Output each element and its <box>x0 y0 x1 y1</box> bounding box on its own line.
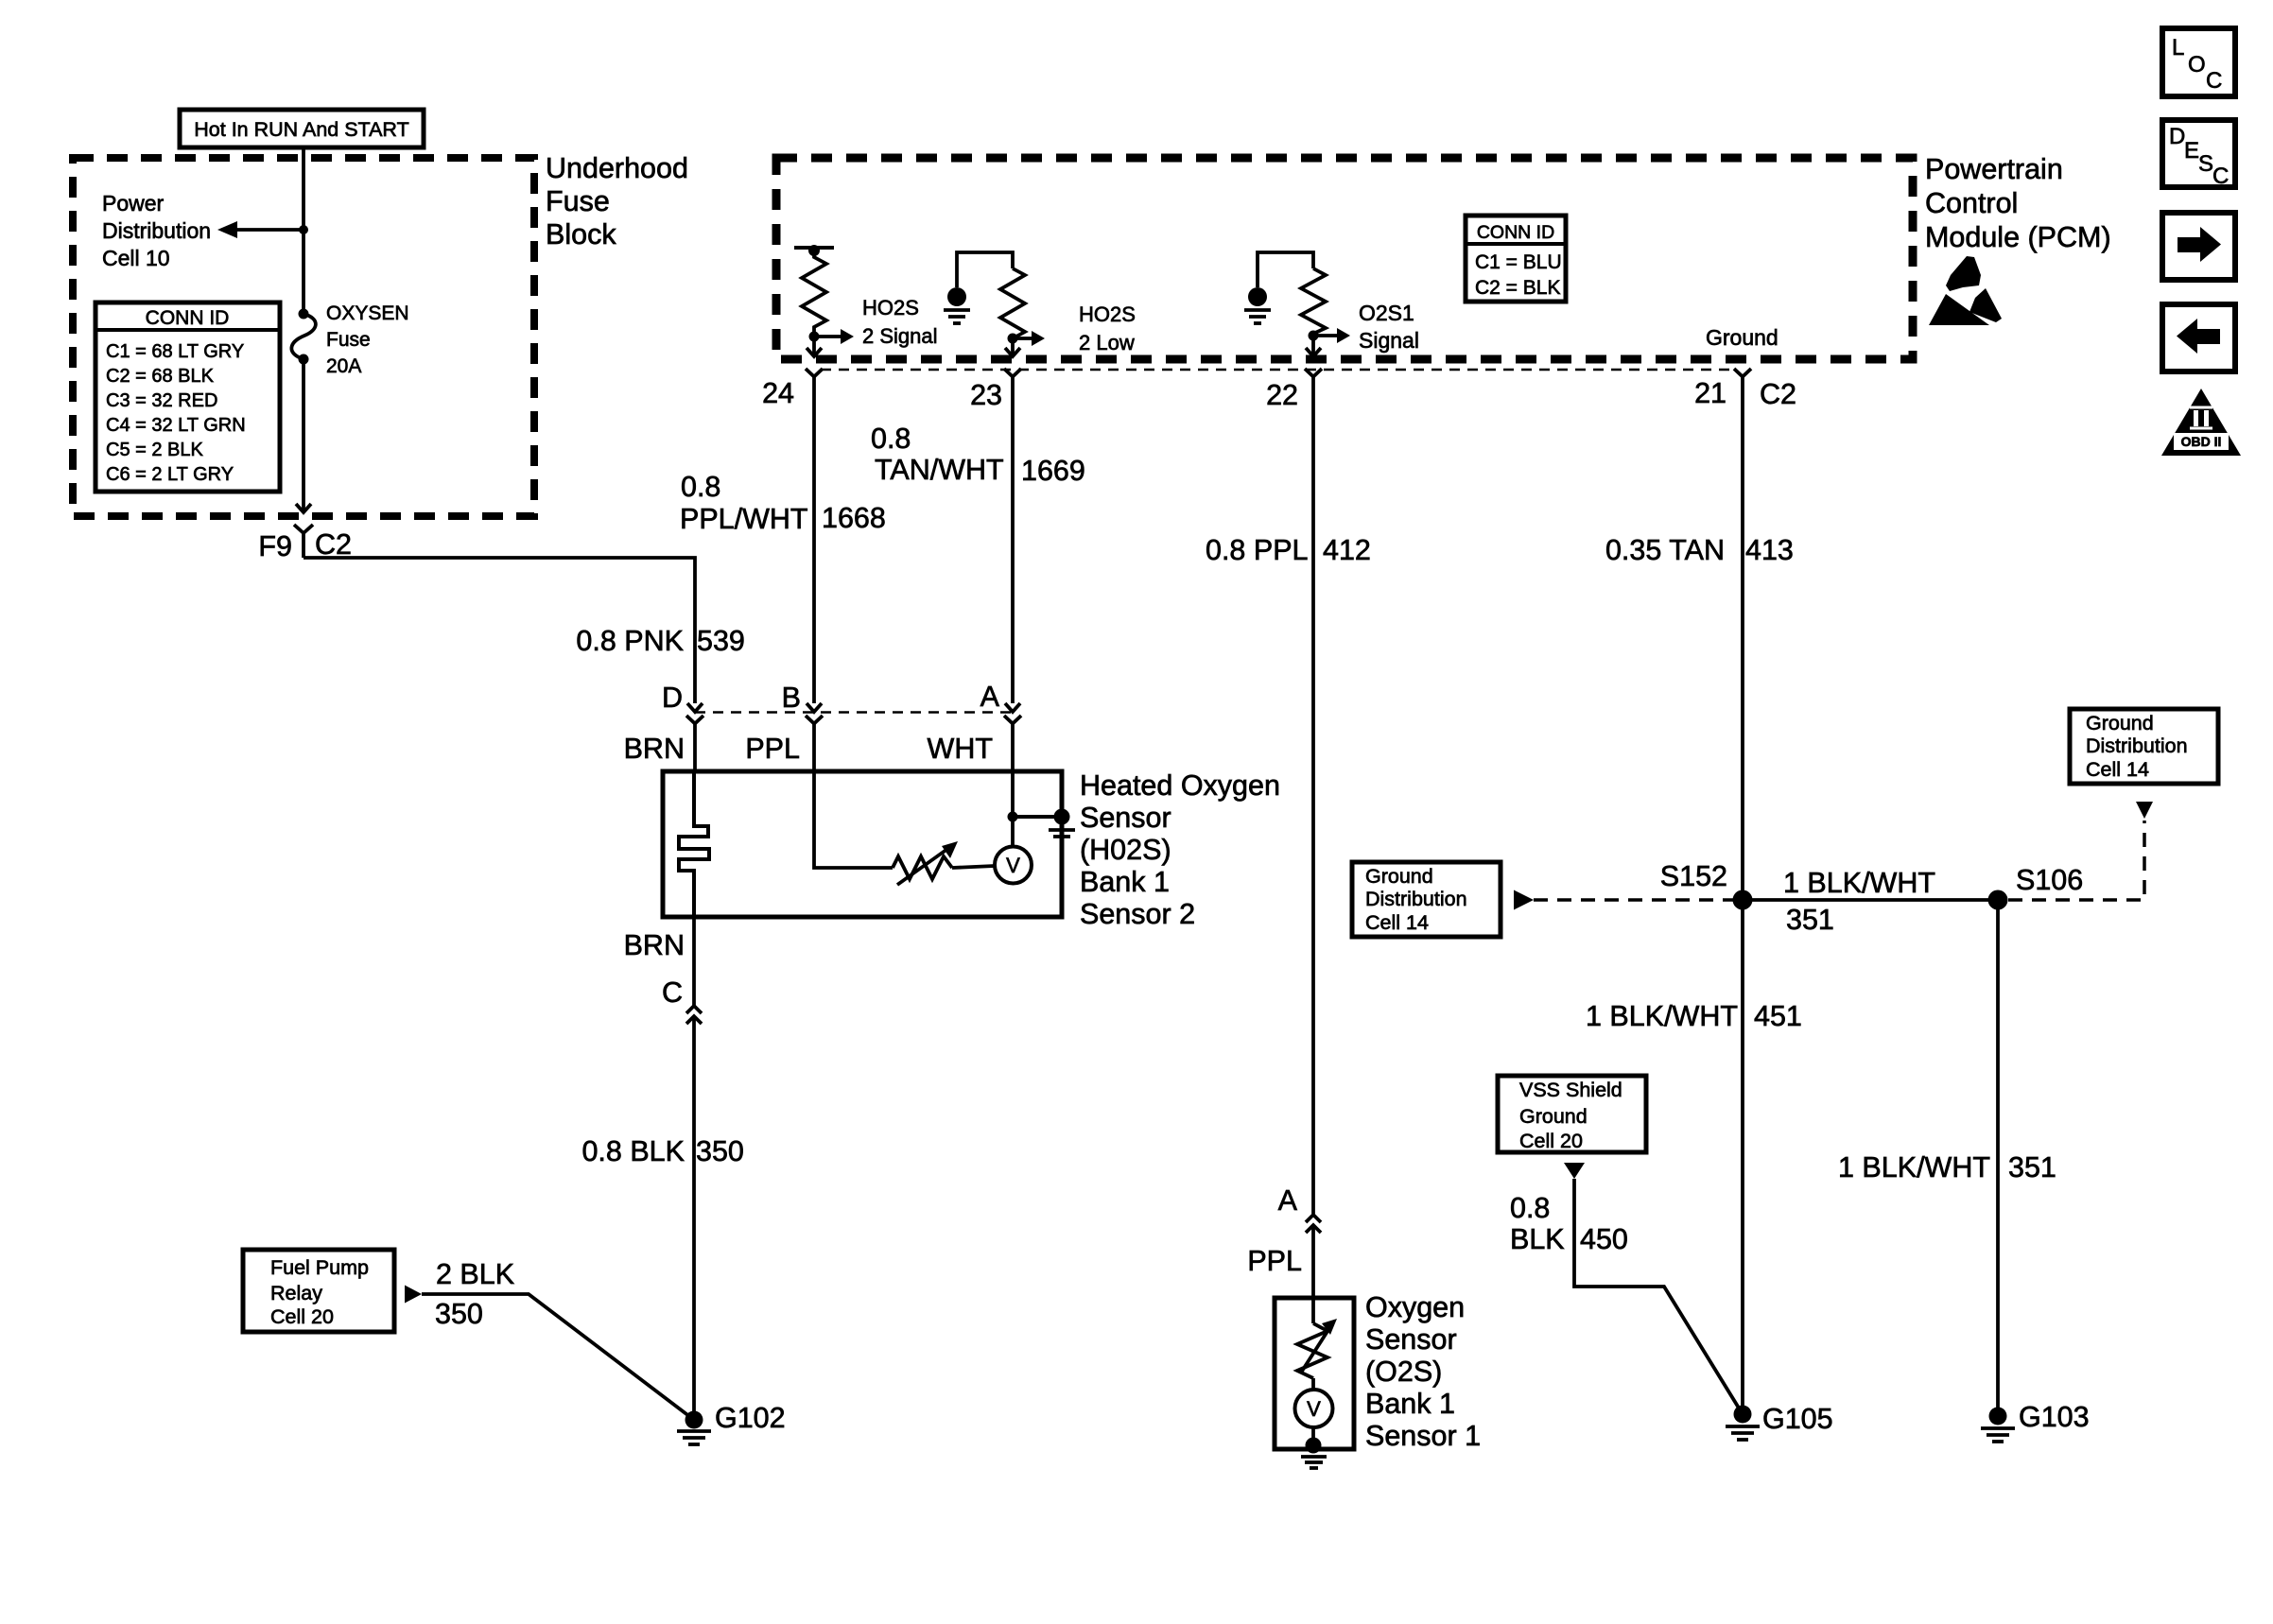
svg-text:C2 = BLK: C2 = BLK <box>1475 277 1560 299</box>
powertrain control module label <box>1925 153 2111 253</box>
resistor (pin 23 pull-down) <box>1000 268 1025 338</box>
Ground label (pin 21) <box>1706 325 1778 350</box>
wire label 0.8 PPL/WHT 1668 <box>680 471 886 535</box>
svg-text:Cell 10: Cell 10 <box>102 246 170 270</box>
svg-text:O2S1: O2S1 <box>1359 301 1414 325</box>
underhood fuse block label <box>546 152 688 251</box>
svg-text:D: D <box>2169 124 2185 149</box>
svg-text:B: B <box>782 682 801 714</box>
svg-text:Distribution: Distribution <box>102 218 211 243</box>
node junction to power distribution <box>299 225 308 234</box>
splice S152 <box>1660 860 1753 910</box>
ground G102 <box>677 1402 786 1444</box>
svg-text:Bank 1: Bank 1 <box>1365 1388 1455 1420</box>
pin 22 connector Y <box>1266 369 1322 411</box>
wire pin 24 exits PCM <box>807 337 822 356</box>
svg-text:S: S <box>2198 151 2213 177</box>
wire label 0.8 BLK 350 <box>581 1135 743 1167</box>
svg-text:413: 413 <box>1745 534 1794 566</box>
power distribution cell 10 label <box>102 191 211 270</box>
svg-text:PPL: PPL <box>745 733 800 765</box>
connector D <box>662 682 703 724</box>
svg-text:539: 539 <box>697 625 745 657</box>
resistor (pin 24 pull-up) <box>802 251 826 337</box>
svg-text:1 BLK/WHT: 1 BLK/WHT <box>1838 1151 1990 1183</box>
wire element to V circle <box>1311 1378 1315 1390</box>
wire pin 24 down (PPL/WHT 1668) <box>812 377 816 704</box>
svg-text:(H02S): (H02S) <box>1080 834 1171 866</box>
svg-text:Cell 14: Cell 14 <box>1365 911 1429 934</box>
connector A <box>980 681 1021 724</box>
svg-text:A: A <box>1278 1184 1298 1217</box>
svg-text:0.8 PPL: 0.8 PPL <box>1206 534 1309 566</box>
connector B <box>782 682 823 724</box>
svg-text:Cell 20: Cell 20 <box>270 1305 334 1328</box>
wire pin 21 down (TAN 413) <box>1741 377 1744 901</box>
svg-text:1668: 1668 <box>822 502 886 534</box>
svg-text:D: D <box>662 682 683 714</box>
svg-text:V: V <box>1006 854 1020 877</box>
pin 24 connector Y <box>762 369 823 409</box>
svg-text:(O2S): (O2S) <box>1365 1356 1442 1388</box>
svg-text:Block: Block <box>546 218 616 251</box>
wire D to HO2S box (BRN) <box>624 724 695 772</box>
O2S sense element (zigzag with arrow) <box>1297 1319 1337 1378</box>
svg-text:C1 = 68 LT GRY: C1 = 68 LT GRY <box>106 341 244 362</box>
svg-text:0.8 BLK: 0.8 BLK <box>581 1135 685 1167</box>
svg-text:0.8: 0.8 <box>871 423 911 455</box>
case ground (HO2S shell) <box>1049 809 1075 838</box>
svg-text:PPL: PPL <box>1247 1245 1302 1277</box>
svg-text:Sensor: Sensor <box>1080 802 1171 834</box>
junction node on WHT <box>1008 812 1018 822</box>
wire pin 23 down (TAN/WHT 1669) <box>1011 377 1015 704</box>
svg-text:S106: S106 <box>2016 864 2083 896</box>
svg-text:1 BLK/WHT: 1 BLK/WHT <box>1586 1000 1738 1032</box>
resistor (pin 22 pull-down) <box>1301 268 1326 334</box>
powertrain control module dashed box <box>776 158 1913 359</box>
heater element (inside HO2S) <box>679 771 709 917</box>
svg-text:350: 350 <box>696 1135 744 1167</box>
svg-text:Sensor: Sensor <box>1365 1323 1457 1356</box>
wire label 0.8 TAN/WHT 1669 <box>871 423 1085 487</box>
svg-text:WHT: WHT <box>928 733 993 765</box>
svg-text:Ground: Ground <box>1519 1105 1588 1128</box>
svg-text:Sensor 1: Sensor 1 <box>1365 1420 1481 1452</box>
ground distribution cell 14 box (left) <box>1352 862 1501 937</box>
svg-text:1 BLK/WHT: 1 BLK/WHT <box>1783 867 1935 899</box>
svg-text:20A: 20A <box>326 355 361 377</box>
svg-text:OXYSEN: OXYSEN <box>326 302 409 324</box>
svg-text:CONN ID: CONN ID <box>1477 222 1554 243</box>
icon DESC <box>2162 120 2235 189</box>
svg-text:351: 351 <box>2008 1151 2056 1183</box>
node HO2S 2 Low with arrow <box>1008 302 1136 354</box>
svg-text:Power: Power <box>102 191 165 216</box>
wire S152 to S106 (1 BLK/WHT 351) <box>1743 867 1998 936</box>
svg-text:351: 351 <box>1786 904 1834 936</box>
svg-text:CONN ID: CONN ID <box>146 307 230 329</box>
heated oxygen sensor label <box>1080 769 1280 930</box>
svg-text:Oxygen: Oxygen <box>1365 1291 1465 1323</box>
wire B to HO2S box (PPL) <box>745 724 814 772</box>
wire ground to resistor pin 22 <box>1258 252 1313 287</box>
svg-text:HO2S: HO2S <box>1079 302 1136 326</box>
svg-text:22: 22 <box>1266 379 1298 411</box>
svg-text:2 BLK: 2 BLK <box>436 1258 514 1290</box>
OXYSEN fuse label <box>326 302 409 377</box>
svg-text:Ground: Ground <box>2086 712 2154 734</box>
hot in run and start label box <box>180 110 424 147</box>
wire fuel pump relay to G102 with arrow <box>405 1286 694 1421</box>
svg-text:450: 450 <box>1580 1223 1628 1255</box>
wire BRN exits HO2S box down <box>624 917 694 1006</box>
ground distribution cell 14 box (right) <box>2070 709 2218 784</box>
svg-text:451: 451 <box>1754 1000 1802 1032</box>
svg-text:BRN: BRN <box>624 733 685 765</box>
wire junction to case ground <box>1013 815 1062 819</box>
svg-text:C2: C2 <box>1760 378 1796 410</box>
svg-text:21: 21 <box>1694 377 1726 409</box>
svg-text:O: O <box>2188 52 2206 78</box>
ground G103 <box>1981 1401 2090 1442</box>
VSS shield ground cell 20 box <box>1498 1076 1646 1152</box>
wire C down to G102 (BLK 350) <box>692 1016 696 1420</box>
svg-text:C: C <box>662 976 683 1009</box>
svg-text:C: C <box>2212 164 2229 189</box>
svg-text:C2: C2 <box>315 528 352 561</box>
wire VSS box down to G105 (BLK 450) <box>1564 1163 1743 1414</box>
svg-text:C5 = 2 BLK: C5 = 2 BLK <box>106 440 204 460</box>
svg-text:Sensor 2: Sensor 2 <box>1080 898 1195 930</box>
svg-text:Bank 1: Bank 1 <box>1080 866 1170 898</box>
voltage source V (O2S) <box>1295 1390 1333 1427</box>
svg-text:1669: 1669 <box>1021 455 1085 487</box>
wire pin 22 down (PPL 412) <box>1311 377 1315 1215</box>
svg-text:L: L <box>2172 35 2184 60</box>
svg-text:G105: G105 <box>1762 1403 1833 1435</box>
svg-text:Underhood: Underhood <box>546 152 688 184</box>
svg-text:Module (PCM): Module (PCM) <box>1925 221 2111 253</box>
O2S case ground <box>1301 1438 1327 1469</box>
node O2S1 Signal with arrow <box>1309 301 1419 353</box>
svg-text:Heated Oxygen: Heated Oxygen <box>1080 769 1280 802</box>
svg-text:Distribution: Distribution <box>1365 888 1467 910</box>
svg-text:0.35 TAN: 0.35 TAN <box>1605 534 1725 566</box>
svg-text:HO2S: HO2S <box>862 296 919 320</box>
wire V to case ground node <box>1311 1427 1315 1445</box>
wire A to HO2S box (WHT) <box>928 724 1013 772</box>
connector row D B A (thin dashed) <box>695 711 1013 714</box>
variable resistor (HO2S sense element) <box>893 841 958 885</box>
icon forward arrow <box>2162 213 2235 280</box>
connector F9/C2 (Y symbol) <box>258 525 352 562</box>
svg-text:Powertrain: Powertrain <box>1925 153 2063 185</box>
PCM internal rail for pin 24 resistor <box>794 245 834 256</box>
pin 21 connector Y with C2 label <box>1694 369 1796 410</box>
svg-text:C2 = 68 BLK: C2 = 68 BLK <box>106 366 215 387</box>
dashed wire S106 to ground distribution (right) <box>2008 802 2153 900</box>
wire from Hot In RUN down to fuse <box>302 147 305 314</box>
underhood fuse block dashed box <box>73 158 534 516</box>
svg-text:Ground: Ground <box>1706 325 1778 350</box>
svg-text:Fuse: Fuse <box>546 185 610 217</box>
wire S152 down to G105 (451) <box>1586 900 1802 1414</box>
svg-text:V: V <box>1307 1397 1321 1421</box>
svg-text:Ground: Ground <box>1365 865 1433 888</box>
PCM CONN ID table <box>1466 216 1566 302</box>
svg-text:BLK: BLK <box>1510 1223 1565 1255</box>
svg-text:Signal: Signal <box>1359 328 1419 353</box>
ground G105 <box>1726 1403 1833 1440</box>
wire PPL into O2S box <box>1311 1225 1315 1323</box>
PCM connector C2 line (thin dashed) <box>821 369 1736 371</box>
svg-text:OBD II: OBD II <box>2181 434 2222 449</box>
wire S106 down to G103 (351) <box>1838 900 2056 1416</box>
wire PPL into box to variable resistor <box>814 771 893 868</box>
svg-text:Control: Control <box>1925 187 2018 219</box>
wire F9 to PNK drop (horizontal) <box>304 558 695 703</box>
wire pin 22 exits PCM <box>1306 336 1321 356</box>
node HO2S 2 Signal with arrow <box>809 296 938 348</box>
splice S106 <box>1988 864 2084 910</box>
heated oxygen sensor box <box>663 771 1062 917</box>
svg-text:C6 = 2 LT GRY: C6 = 2 LT GRY <box>106 464 234 485</box>
svg-text:2 Signal: 2 Signal <box>862 324 938 348</box>
svg-text:0.8: 0.8 <box>681 471 720 503</box>
svg-text:E: E <box>2184 138 2199 164</box>
svg-text:A: A <box>980 681 1000 713</box>
svg-text:0.8 PNK: 0.8 PNK <box>576 625 684 657</box>
svg-text:PPL/WHT: PPL/WHT <box>680 503 808 535</box>
svg-text:TAN/WHT: TAN/WHT <box>875 454 1004 486</box>
svg-text:Fuel Pump: Fuel Pump <box>270 1256 369 1279</box>
svg-text:C4 = 32 LT GRN: C4 = 32 LT GRN <box>106 415 246 436</box>
pin 23 connector Y <box>970 369 1021 411</box>
svg-text:G103: G103 <box>2019 1401 2090 1433</box>
svg-text:350: 350 <box>435 1298 483 1330</box>
dashed wire GD box to S152 with arrow <box>1514 890 1733 910</box>
svg-text:C: C <box>2206 68 2222 94</box>
wire pin 23 exits PCM <box>1005 338 1020 356</box>
wire ground to resistor pin 23 <box>957 252 1013 287</box>
svg-text:VSS Shield: VSS Shield <box>1519 1079 1622 1101</box>
wire label 0.35 TAN 413 <box>1605 534 1794 566</box>
svg-text:Hot In RUN And START: Hot In RUN And START <box>194 118 408 141</box>
voltage source V (HO2S) <box>995 847 1032 884</box>
wire WHT into box to junction <box>1011 771 1015 846</box>
fuse OXYSEN 20A <box>291 309 316 365</box>
oxygen sensor O2S box <box>1275 1298 1354 1449</box>
svg-text:G102: G102 <box>715 1402 786 1434</box>
svg-text:Distribution: Distribution <box>2086 734 2188 757</box>
icon back arrow <box>2162 304 2235 371</box>
svg-text:C3 = 32 RED: C3 = 32 RED <box>106 390 217 411</box>
svg-text:Cell 14: Cell 14 <box>2086 758 2149 781</box>
icon LOC <box>2162 28 2235 96</box>
CONN ID table (underhood fuse block) <box>95 302 280 492</box>
icon OBD II triangle <box>2161 389 2241 456</box>
svg-text:23: 23 <box>970 379 1002 411</box>
svg-text:Cell 20: Cell 20 <box>1519 1130 1583 1152</box>
svg-text:S152: S152 <box>1660 860 1727 892</box>
connector C (in-line) <box>662 976 702 1024</box>
ground symbol (PCM internal, pin 22) <box>1244 287 1271 323</box>
fuel pump relay cell 20 box <box>243 1250 394 1332</box>
svg-text:F9: F9 <box>258 530 292 562</box>
wire label 0.8 PPL 412 <box>1206 534 1371 566</box>
svg-text:2 Low: 2 Low <box>1079 331 1135 354</box>
wire from fuse down to F9 <box>296 359 311 512</box>
wire label 2 BLK 350 <box>435 1258 514 1330</box>
svg-text:Relay: Relay <box>270 1282 322 1304</box>
wire var resistor to V circle <box>952 866 995 868</box>
ground symbol (PCM internal, pin 23) <box>944 287 970 323</box>
svg-text:412: 412 <box>1323 534 1371 566</box>
svg-text:24: 24 <box>762 377 794 409</box>
svg-text:C1 = BLU: C1 = BLU <box>1475 251 1562 273</box>
connector A on PPL wire (in-line) <box>1247 1184 1321 1277</box>
oxygen sensor label <box>1365 1291 1481 1452</box>
wire label 0.8 PNK 539 <box>576 625 744 657</box>
svg-text:BRN: BRN <box>624 929 685 961</box>
wire to power distribution with arrow <box>217 221 304 238</box>
wire label 0.8 BLK 450 <box>1510 1192 1628 1255</box>
svg-text:0.8: 0.8 <box>1510 1192 1550 1224</box>
svg-text:Fuse: Fuse <box>326 329 371 351</box>
ESD symbol (PCM) <box>1929 256 2002 325</box>
